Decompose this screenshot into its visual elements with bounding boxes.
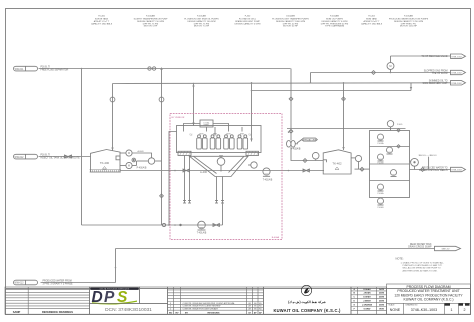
svg-text:PRODUCED WATER TO: PRODUCED WATER TO: [422, 166, 448, 169]
svg-text:TK-400: TK-400: [98, 16, 106, 18]
pump skid 1: [378, 134, 385, 145]
pump V-402A/B twin circles: [287, 131, 301, 151]
wire line B skim header: [113, 82, 451, 85]
wire vertical x168.5 recycle: [168, 132, 176, 226]
svg-text:T-402A/B: T-402A/B: [263, 179, 273, 182]
svg-text:BY VENDOR: BY VENDOR: [172, 117, 185, 119]
svg-text:3748-1002: 3748-1002: [451, 73, 462, 75]
flotation cell 4: [237, 134, 247, 150]
svg-text:MTR: MTR: [200, 134, 205, 136]
svg-text:REVISIONS: REVISIONS: [208, 312, 220, 314]
svg-text:SCALE: SCALE: [389, 304, 396, 307]
svg-text:WW-012: WW-012: [15, 157, 25, 159]
svg-text:TO HP RECYCLE VALVE: TO HP RECYCLE VALVE: [421, 55, 448, 58]
wire vertical x310: [310, 73, 312, 83]
svg-text:P-401A/B: P-401A/B: [197, 15, 207, 18]
instrument circle on x112: [110, 97, 115, 102]
valve circle on line H left: [162, 223, 181, 226]
revision table: [168, 287, 264, 314]
valves on line I: [183, 169, 309, 172]
pump skid top P-405: [387, 121, 403, 131]
svg-text:WILL ALLOW SPEED AT ONE PUMP T: WILL ALLOW SPEED AT ONE PUMP TO: [403, 267, 441, 270]
svg-text:شركة نفط الكويت (ش.م.ك): شركة نفط الكويت (ش.م.ك): [288, 300, 326, 304]
node flag R2 slopped gas: [424, 69, 466, 75]
arrow up into line A: [160, 67, 162, 70]
svg-text:DATE: DATE: [379, 300, 385, 303]
outlet line label: [419, 155, 437, 169]
svg-text:REFERENCE DRAWINGS: REFERENCE DRAWINGS: [42, 310, 73, 314]
svg-text:3748-1002: 3748-1002: [451, 83, 462, 85]
svg-text:1. DRAIN, PPD NO. OF GOES TO: 1. DRAIN, PPD NO. OF GOES TO START ALL: [401, 262, 445, 265]
svg-text:NO: NO: [169, 312, 173, 314]
flotation trapezoid sump A-400: [190, 156, 249, 176]
pump P-400A circle: [120, 150, 132, 156]
svg-text:P-404B: P-404B: [378, 207, 385, 209]
flotation unit main box: [177, 126, 262, 153]
wire line K produced water bottom: [116, 248, 435, 250]
wire line A inlet header: [39, 68, 291, 70]
svg-text:DATE: DATE: [379, 292, 385, 295]
tank TK-400: [90, 150, 122, 173]
wire skid outlet line: [410, 169, 451, 171]
arrow down x343 into tank: [342, 147, 344, 150]
svg-text:MTR: MTR: [213, 134, 218, 136]
svg-text:1: 1: [451, 308, 453, 312]
drain pipes pair 2: [215, 177, 224, 204]
title block: [5, 284, 471, 314]
DPS logo block: [90, 287, 168, 314]
node flag R5 dead water: [408, 243, 460, 251]
wire vertical x290: [290, 69, 292, 141]
node flag R1 to HP recycle valve: [421, 54, 465, 58]
pump skid 5: [378, 184, 385, 195]
node flag L3 produced water from separator: [14, 280, 74, 286]
wire vertical x112 to TK-400 roof: [112, 84, 114, 151]
pump T-402A/B on line I: [263, 168, 273, 182]
junction dots lower: [161, 170, 290, 226]
svg-text:3 PHS. 3 GRAVITY 3 PHASE: 3 PHS. 3 GRAVITY 3 PHASE: [43, 282, 74, 285]
svg-text:L.GRAHAM: L.GRAHAM: [362, 303, 373, 306]
equipment header label row: [91, 15, 429, 28]
pump inside trapezoid: [217, 155, 225, 171]
wire vertical x410.5: [410, 83, 412, 91]
svg-text:ALIGN: ALIGN: [137, 150, 144, 153]
pump P-406 circle on x390: [387, 63, 394, 70]
diamond valves on skid top: [397, 129, 400, 148]
piping network: [39, 56, 451, 283]
svg-text:MTR: MTR: [227, 134, 232, 136]
wire line I flotation outlet: [120, 170, 324, 172]
svg-text:PANEL: PANEL: [204, 124, 210, 127]
approvals table: [351, 287, 387, 314]
svg-text:JM: JM: [248, 303, 251, 305]
svg-text:P-402: P-402: [245, 16, 251, 18]
control box on top: [184, 120, 243, 136]
note block: [396, 257, 445, 273]
valve on line H right: [213, 224, 219, 227]
pump on outlet line: [410, 158, 419, 169]
svg-text:（d: （d: [188, 133, 193, 137]
diamond valve on x343: [342, 97, 346, 101]
label P-400A/B: [137, 150, 147, 169]
svg-text:P-400A/B: P-400A/B: [146, 15, 156, 18]
svg-text:NONE: NONE: [390, 308, 401, 312]
arrow down x112 into tank: [111, 148, 113, 151]
diamond valve on x290 upper: [289, 97, 293, 101]
arrow down x251: [250, 139, 252, 142]
svg-text:DATE: DATE: [379, 296, 385, 299]
svg-text:M: M: [128, 152, 130, 155]
drain pipes pair 1: [183, 156, 191, 204]
svg-text:P-403B: P-403B: [378, 162, 385, 164]
valve diamond on x161: [160, 194, 164, 198]
svg-text:3748-1004: 3748-1004: [451, 170, 462, 172]
svg-text:MOTOR: 1250 HP: MOTOR: 1250 HP: [400, 26, 418, 28]
right distributor hatched box: [246, 151, 259, 155]
svg-text:A-400: A-400: [200, 170, 207, 174]
svg-text:CAPACITY 1800 BBLS: CAPACITY 1800 BBLS: [361, 22, 383, 25]
svg-text:SLOPPED GAS FROM: SLOPPED GAS FROM: [424, 69, 448, 72]
svg-text:THE HP FLOW: THE HP FLOW: [432, 73, 448, 75]
wire vertical x251: [251, 83, 253, 142]
pump P-402 circle near TK-402: [312, 152, 319, 160]
wire line F flag2 to TK-400: [39, 156, 91, 158]
svg-text:BY: BY: [185, 312, 189, 314]
svg-text:P-405: P-405: [397, 124, 403, 126]
svg-text:3748-1002: 3748-1002: [451, 56, 462, 58]
svg-text:D.SHAH: D.SHAH: [363, 296, 371, 299]
svg-text:T-401A/B: T-401A/B: [197, 232, 207, 235]
wire vertical x222 trapezoid drain: [222, 204, 224, 226]
chemical tag hexagon: [297, 138, 317, 162]
pump at TK-402 outlet: [355, 155, 364, 171]
inline circles on line A: [148, 67, 156, 70]
svg-text:MOTOR: 40 HP: MOTOR: 40 HP: [283, 26, 298, 28]
svg-text:DESIGN CAPACITY 4 GPM: DESIGN CAPACITY 4 GPM: [235, 22, 261, 25]
svg-text:P-404A: P-404A: [378, 192, 385, 195]
node flag L2 inlet water: [14, 154, 81, 159]
svg-text:2: 2: [464, 308, 466, 312]
svg-text:M: M: [128, 165, 130, 168]
drawing title box: [387, 284, 471, 314]
wire vertical x115 riser: [115, 249, 117, 283]
left distributor hatched box: [178, 151, 191, 155]
wire line C recycle header: [252, 90, 412, 92]
svg-text:3B-FLO——3B-FLO: 3B-FLO——3B-FLO: [419, 155, 437, 157]
svg-text:WON: WON: [379, 308, 384, 310]
svg-text:P-400A/B: P-400A/B: [137, 166, 147, 169]
svg-text:CONSTR. ISSUE FOR UNIT UPDA: CONSTR. ISSUE FOR UNIT UPDATE: [183, 308, 219, 311]
pump T-401A/B: [197, 221, 207, 234]
svg-text:V-402A/B: V-402A/B: [291, 148, 301, 151]
svg-text:KUWAIT OIL COMPANY (K.S.C.): KUWAIT OIL COMPANY (K.S.C.): [273, 308, 340, 313]
svg-text:B-400A: B-400A: [272, 236, 280, 239]
svg-text:MTR: MTR: [240, 134, 245, 136]
svg-text:WW-013: WW-013: [15, 283, 25, 285]
wire vertical x343 to TK-402 roof: [343, 83, 345, 150]
svg-text:WW-011: WW-011: [15, 69, 24, 71]
node flag R4 produced water to disposal: [419, 166, 466, 172]
svg-text:MOTOR: 7.5 HP: MOTOR: 7.5 HP: [194, 26, 210, 28]
svg-text:3748–K30–1003: 3748–K30–1003: [411, 308, 437, 312]
svg-text:DATE: DATE: [379, 288, 385, 291]
valve bowtie on flag L2 line: [65, 155, 72, 158]
svg-text:P-403A: P-403A: [378, 142, 385, 145]
pump skid 3: [378, 154, 385, 164]
reference drawings table: [5, 287, 90, 314]
arrow down x193: [192, 86, 194, 126]
svg-text:NOTE:: NOTE:: [396, 257, 404, 261]
diamond valve on line E: [372, 71, 376, 75]
svg-text:ANOTHER LEVEL AT TANK TO USE.: ANOTHER LEVEL AT TANK TO USE.: [403, 269, 438, 272]
svg-text:（d: （d: [247, 133, 252, 137]
svg-text:SEE 2/2: SEE 2/2: [441, 249, 450, 251]
vendor package boundary (red dashed): [170, 114, 282, 240]
pump P-400 main: [132, 153, 161, 164]
junction dots upper: [81, 68, 392, 269]
wire vertical x390 pump riser: [390, 56, 392, 73]
wire vertical x81: [81, 69, 83, 226]
svg-text:DRAIN CROSS SUMP: DRAIN CROSS SUMP: [408, 246, 432, 249]
outlet flags right: [408, 54, 465, 251]
svg-text:CONSTR. ISSUE AS SHOWN PER: CONSTR. ISSUE AS SHOWN PER CLIENT APPROV…: [183, 302, 236, 305]
flotation cell 2: [210, 134, 220, 150]
svg-text:TK-400: TK-400: [100, 161, 110, 165]
flotation cell 3: [224, 134, 234, 150]
svg-text:DRAWING NO.: DRAWING NO.: [406, 304, 419, 307]
inlet flags left: [14, 66, 81, 285]
injection pump skid: [370, 121, 437, 210]
svg-text:S.GRAY: S.GRAY: [363, 307, 371, 310]
wire chemical feed line y128: [287, 128, 406, 130]
flotation cell 1: [197, 134, 207, 150]
flow arrows: [111, 67, 412, 151]
svg-text:INJECT OIL TANK ULTIMATE ROUT: INJECT OIL TANK ULTIMATE ROUTE: [41, 156, 81, 159]
pump skid 4: [391, 170, 397, 177]
svg-text:CAPACITY 1800 BBLS: CAPACITY 1800 BBLS: [91, 22, 113, 25]
svg-text:P-404A/B: P-404A/B: [330, 15, 340, 18]
tank TK-402: [323, 150, 351, 174]
svg-text:J.KHAN: J.KHAN: [363, 292, 371, 295]
svg-text:PRODUCED WATER FROM: PRODUCED WATER FROM: [43, 280, 72, 283]
node flag L1 test plug separator: [14, 66, 69, 71]
arrow down x410.5: [410, 87, 412, 90]
vessels and equipment: [65, 63, 395, 269]
wire line E slop gas: [311, 72, 451, 74]
svg-text:SPECIAL LINE: SPECIAL LINE: [303, 139, 317, 142]
valve between P-400 pumps: [132, 158, 137, 165]
instrument circle on x161: [159, 97, 164, 102]
svg-text:CONSTR. ISSUE FOR CLIENT RE: CONSTR. ISSUE FOR CLIENT REVIEW: [183, 306, 221, 308]
flotation unit ME-400: [160, 120, 310, 235]
svg-text:M: M: [389, 64, 391, 68]
svg-text:TK-402: TK-402: [332, 162, 342, 166]
svg-text:P-405A/B: P-405A/B: [404, 15, 414, 18]
wire line L from flag L3: [41, 282, 116, 284]
wire vertical x193 to unit: [193, 84, 195, 126]
diamond valve on outlet: [421, 168, 425, 172]
pump P-400B circle: [120, 162, 132, 168]
svg-text:JM: JM: [248, 306, 251, 308]
svg-text:SKIM RECOVERY UNIT: SKIM RECOVERY UNIT: [422, 83, 448, 85]
svg-text:R.SHAH: R.SHAH: [363, 288, 371, 291]
svg-text:FREE FLUID SEPARATOR: FREE FLUID SEPARATOR: [41, 68, 69, 71]
svg-text:KUWAIT OIL COMPANY (K.S.C.): KUWAIT OIL COMPANY (K.S.C.): [403, 298, 453, 302]
svg-text:JM: JM: [248, 309, 251, 311]
diamond valve on x290 mid: [289, 129, 293, 133]
skid frame: [370, 131, 410, 198]
svg-text:J.SINGH: J.SINGH: [363, 301, 371, 303]
wire line D recycle to flag: [391, 55, 451, 57]
svg-text:DEAD WATER TANK: DEAD WATER TANK: [410, 243, 432, 246]
wire line H recycle bottom: [82, 224, 223, 226]
svg-text:MOTOR: 5 HP: MOTOR: 5 HP: [144, 26, 158, 28]
pump skid 6 below: [378, 198, 385, 209]
aerator marks: [188, 133, 252, 137]
pump at trapezoid right: [248, 162, 257, 168]
node flag R3 skimmed oil: [422, 81, 465, 86]
wire vertical x290 lower to pump discharge: [291, 147, 323, 160]
svg-text:DATE: DATE: [379, 303, 385, 306]
svg-text:DCN: 3748K3G10031: DCN: 3748K3G10031: [105, 307, 152, 313]
svg-text:TYPE: DIAPHRAGM: TYPE: DIAPHRAGM: [325, 25, 344, 28]
svg-text:SAMP: SAMP: [13, 310, 21, 314]
wire vertical x161: [161, 69, 163, 226]
svg-text:PUMPS AT LOCATION AND 0.1 MAX: PUMPS AT LOCATION AND 0.1 MAX TYP.: [403, 264, 443, 267]
svg-text:TK-402: TK-402: [368, 16, 376, 18]
svg-text:V-402A/B: V-402A/B: [286, 15, 295, 18]
pump skid 2: [387, 147, 393, 154]
wire TK-402 outlet: [351, 158, 369, 169]
KOC company block: [264, 285, 352, 314]
